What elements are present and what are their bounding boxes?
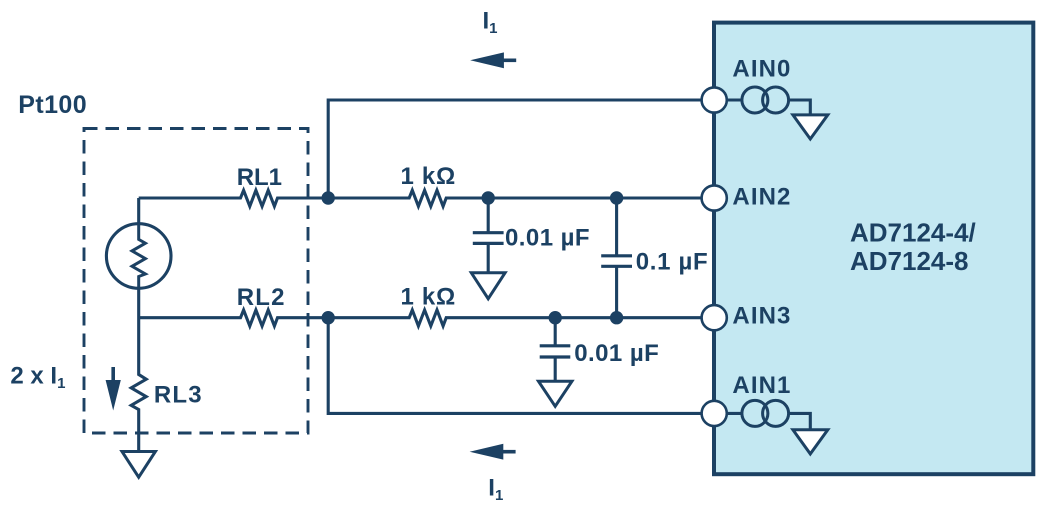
svg-text:AIN0: AIN0	[732, 56, 791, 83]
svg-text:AIN2: AIN2	[732, 184, 791, 211]
svg-text:1 kΩ: 1 kΩ	[401, 163, 456, 190]
svg-text:0.01 µF: 0.01 µF	[574, 340, 659, 367]
svg-text:RL2: RL2	[237, 284, 286, 311]
svg-text:1 kΩ: 1 kΩ	[401, 284, 456, 311]
svg-text:Pt100: Pt100	[18, 91, 87, 119]
svg-text:AIN1: AIN1	[732, 372, 791, 399]
svg-text:RL1: RL1	[237, 164, 282, 191]
svg-text:I1: I1	[483, 7, 498, 37]
svg-text:AD7124-4/: AD7124-4/	[850, 218, 976, 248]
svg-text:RL3: RL3	[154, 382, 203, 409]
svg-text:2 x I1: 2 x I1	[10, 362, 65, 392]
svg-text:AD7124-8: AD7124-8	[850, 246, 969, 276]
svg-text:AIN3: AIN3	[732, 303, 791, 330]
svg-text:0.1 µF: 0.1 µF	[636, 249, 709, 276]
svg-text:0.01 µF: 0.01 µF	[505, 225, 590, 252]
svg-text:I1: I1	[488, 474, 503, 504]
